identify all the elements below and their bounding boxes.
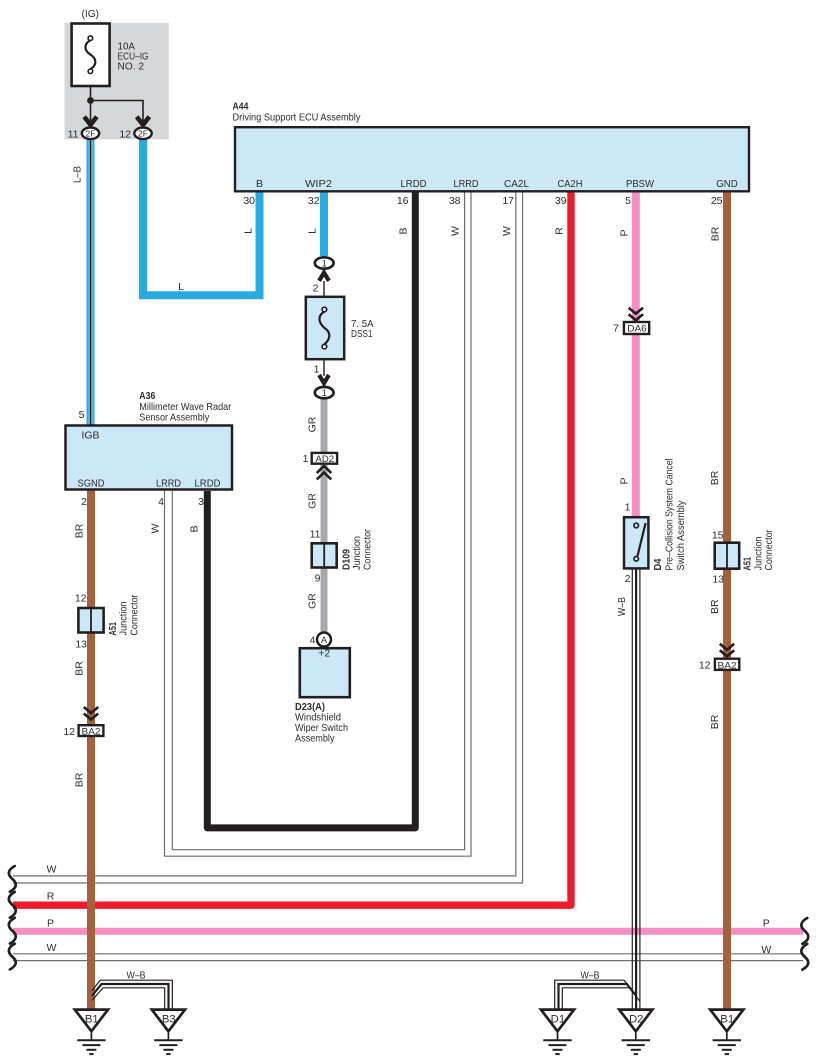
svg-text:4: 4	[310, 635, 316, 647]
ECU A36 Millimeter Wave Radar Sensor Assembly	[66, 426, 233, 490]
wire W-B branch from B1 to ground B3	[92, 980, 172, 1009]
svg-text:IGB: IGB	[82, 430, 100, 442]
junction node dot	[87, 97, 94, 104]
arrow into connector 2F pin 12	[137, 117, 150, 125]
svg-text:P: P	[618, 229, 630, 236]
svg-text:9: 9	[315, 573, 321, 585]
svg-text:LRRD: LRRD	[454, 178, 479, 190]
svg-text:P: P	[763, 917, 770, 929]
wire B LRDD (A44 pin16 to A36 pin3)	[207, 191, 415, 828]
svg-text:B3: B3	[162, 1014, 176, 1026]
wire L from 2F pin12 to A44 pin30 B	[143, 140, 260, 296]
wire W-B D4 pin2 down to grounds D1 D2	[631, 569, 633, 1010]
arrow into connector 2F pin 11	[84, 117, 97, 125]
svg-text:B: B	[188, 525, 200, 532]
connector oval 2F pin 12	[134, 128, 151, 140]
svg-text:1: 1	[322, 388, 327, 398]
svg-text:W–B: W–B	[127, 969, 146, 981]
ground D1	[541, 1010, 574, 1032]
svg-text:P: P	[618, 477, 630, 484]
svg-text:30: 30	[243, 195, 255, 207]
svg-text:12: 12	[699, 660, 711, 672]
svg-text:Assembly: Assembly	[295, 733, 335, 745]
wire W CA2L (A44 pin17 to left edge)	[13, 191, 523, 883]
svg-text:17: 17	[502, 195, 514, 207]
wire R (A44 pin39 CA2H to left edge)	[13, 191, 571, 905]
svg-text:W: W	[47, 864, 57, 876]
wire L from A44 pin32 WIP2 down to connector	[320, 191, 328, 256]
svg-text:Connector: Connector	[763, 529, 775, 570]
svg-text:5: 5	[625, 195, 631, 207]
svg-text:GND: GND	[716, 178, 738, 190]
svg-text:LRDD: LRDD	[195, 477, 221, 489]
wire GR AD2 to D109	[321, 465, 328, 543]
svg-text:BA2: BA2	[82, 726, 101, 737]
svg-text:13: 13	[712, 573, 724, 585]
svg-text:DA6: DA6	[627, 323, 647, 334]
svg-text:7: 7	[613, 323, 619, 335]
svg-text:P: P	[47, 917, 54, 929]
svg-text:(IG): (IG)	[82, 8, 100, 20]
svg-text:11: 11	[310, 529, 321, 541]
svg-text:Pre–Collision System Cancel: Pre–Collision System Cancel	[664, 459, 676, 571]
ground B3	[152, 1010, 185, 1032]
svg-text:WIP2: WIP2	[305, 178, 332, 190]
svg-text:BR: BR	[709, 714, 721, 729]
svg-text:NO. 2: NO. 2	[118, 61, 145, 73]
svg-text:1: 1	[314, 364, 320, 376]
svg-text:CA2H: CA2H	[558, 178, 583, 190]
svg-text:W–B: W–B	[616, 597, 628, 616]
svg-text:L: L	[178, 281, 184, 293]
svg-text:1: 1	[625, 502, 631, 514]
svg-text:SGND: SGND	[78, 477, 105, 489]
fuse 7.5A DSS1	[306, 297, 344, 359]
wire BR A44 GND pin25 down to ground B1 right	[723, 191, 731, 1010]
svg-text:B1: B1	[85, 1014, 99, 1026]
svg-text:CA2L: CA2L	[504, 178, 529, 190]
svg-text:2: 2	[625, 573, 631, 585]
svg-text:2: 2	[313, 283, 319, 295]
svg-text:W: W	[761, 944, 771, 956]
svg-text:L: L	[243, 228, 255, 234]
svg-text:DSS1: DSS1	[351, 328, 373, 340]
svg-text:R: R	[47, 890, 55, 902]
svg-text:AD2: AD2	[316, 454, 335, 465]
svg-text:1: 1	[303, 453, 309, 465]
svg-text:2: 2	[81, 496, 87, 508]
svg-text:A44: A44	[233, 100, 249, 112]
svg-text:D2: D2	[629, 1014, 643, 1026]
svg-text:LRRD: LRRD	[156, 477, 181, 489]
break mark W right	[801, 944, 808, 970]
svg-text:39: 39	[555, 195, 567, 207]
wire fuse output to branch node	[90, 87, 92, 101]
wire W-B branch to ground D1	[555, 980, 633, 1009]
svg-text:R: R	[553, 227, 565, 235]
svg-text:38: 38	[449, 195, 461, 207]
svg-text:W: W	[501, 226, 513, 236]
svg-text:12: 12	[75, 593, 87, 605]
svg-text:W–B: W–B	[581, 970, 600, 982]
svg-text:25: 25	[711, 195, 723, 207]
svg-text:D1: D1	[551, 1014, 565, 1026]
svg-text:B: B	[398, 227, 410, 234]
connector oval 2F pin 11	[82, 128, 99, 140]
svg-text:2F: 2F	[138, 128, 148, 138]
svg-text:BR: BR	[709, 470, 721, 485]
wire GR fuse DSS1 to AD2	[321, 399, 328, 453]
svg-text:W: W	[47, 942, 57, 954]
arrow up into oval 1	[319, 273, 329, 281]
svg-text:B: B	[256, 178, 263, 190]
wire P horizontal rail	[13, 928, 803, 935]
svg-text:13: 13	[75, 639, 87, 651]
wire GR D109 to D23 pin4	[321, 568, 328, 633]
svg-text:A: A	[321, 635, 327, 645]
svg-text:Connector: Connector	[129, 594, 141, 635]
svg-text:GR: GR	[307, 416, 319, 432]
svg-text:11: 11	[68, 128, 79, 140]
svg-text:BA2: BA2	[718, 660, 737, 671]
connector oval 1 (to fuse DSS1 pin2)	[315, 257, 334, 268]
break mark P right	[801, 918, 808, 944]
wire BR A36 SGND pin2 down to ground B1	[87, 490, 95, 1010]
svg-text:Connector: Connector	[361, 529, 373, 570]
svg-text:+2: +2	[318, 648, 330, 660]
break mark W left	[9, 866, 16, 892]
svg-text:GR: GR	[307, 493, 319, 509]
svg-text:PBSW: PBSW	[626, 178, 654, 190]
svg-text:W: W	[449, 226, 461, 236]
fuse 10A ECU-IG NO.2	[72, 24, 110, 87]
svg-text:W: W	[150, 523, 162, 533]
switch D23(A) Windshield Wiper Switch Assembly	[300, 648, 350, 697]
arrow down into oval 1 lower	[319, 375, 329, 383]
svg-text:4: 4	[158, 496, 164, 508]
svg-text:16: 16	[397, 195, 409, 207]
svg-text:Switch Assembly: Switch Assembly	[675, 500, 687, 571]
wire W horizontal rail bottom	[13, 953, 803, 955]
break mark R left	[9, 892, 16, 918]
svg-text:L: L	[307, 228, 319, 234]
wire W LRRD (A44 pin38 to A36 pin4)	[165, 191, 472, 856]
wire L-B from 2F pin11 to A36 pin5	[87, 140, 95, 426]
double chevron down into DA6	[629, 308, 643, 314]
double chevron down into BA2 left	[84, 707, 98, 713]
svg-text:BR: BR	[73, 772, 85, 787]
svg-text:L–B: L–B	[72, 166, 84, 183]
svg-text:12: 12	[119, 128, 131, 140]
svg-text:5: 5	[79, 409, 85, 421]
svg-text:GR: GR	[307, 593, 319, 609]
svg-text:Driving Support ECU Assembly: Driving Support ECU Assembly	[233, 112, 362, 124]
svg-text:D4: D4	[652, 558, 664, 570]
break mark W2 left	[9, 944, 16, 970]
wire P DA6 to D4 pin1	[632, 334, 640, 517]
double chevron down into BA2 right	[720, 644, 734, 650]
svg-text:2F: 2F	[86, 128, 96, 138]
svg-text:Sensor Assembly: Sensor Assembly	[139, 411, 210, 423]
wire P PBSW pin5 to DA6	[632, 191, 640, 322]
svg-text:1: 1	[322, 258, 327, 268]
svg-text:LRDD: LRDD	[401, 178, 427, 190]
svg-text:BR: BR	[73, 523, 85, 538]
ground B1 right	[710, 1010, 743, 1032]
svg-text:32: 32	[308, 195, 320, 207]
double chevron up below AD2	[317, 466, 331, 473]
ECU A44 Driving Support ECU Assembly	[235, 127, 749, 191]
svg-text:A36: A36	[139, 390, 155, 402]
fuse block background (IG)	[65, 23, 169, 140]
svg-text:12: 12	[63, 726, 75, 738]
svg-text:BR: BR	[73, 661, 85, 676]
svg-text:BR: BR	[709, 599, 721, 614]
ground D2	[619, 1010, 652, 1032]
ground B1 left	[75, 1010, 108, 1032]
break mark P left	[9, 918, 16, 944]
svg-text:BR: BR	[710, 226, 722, 241]
connector oval 1 lower	[315, 387, 334, 398]
svg-text:15: 15	[712, 530, 724, 542]
svg-text:3: 3	[198, 496, 204, 508]
svg-text:B1: B1	[720, 1014, 734, 1026]
